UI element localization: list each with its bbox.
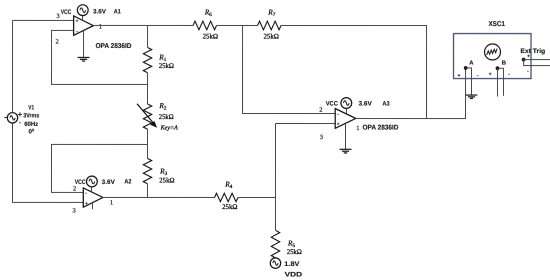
svg-text:OPA 2836ID: OPA 2836ID — [363, 125, 399, 132]
svg-text:3: 3 — [56, 13, 59, 20]
svg-text:3.6V: 3.6V — [93, 8, 107, 15]
op-amp A3 — [335, 109, 356, 129]
svg-text:25kΩ: 25kΩ — [287, 248, 302, 256]
svg-text:B: B — [502, 60, 507, 67]
terminal A — [457, 59, 478, 79]
wire terminal A minus to ground — [466, 68, 472, 95]
A2 V- stub — [91, 203, 93, 209]
VCC symbol A3 — [326, 98, 390, 114]
svg-text:+: + — [76, 20, 79, 25]
resistor R4 — [214, 179, 275, 211]
wire A3 output to scope A — [356, 70, 466, 119]
wire R7 to A3 output (feedback drop) — [281, 26, 427, 119]
wire A2 feedback loop — [51, 144, 147, 192]
ground scope — [466, 95, 478, 98]
svg-text:VDD: VDD — [285, 272, 303, 279]
svg-text:25kΩ: 25kΩ — [159, 113, 174, 121]
VCC symbol A2 — [75, 176, 132, 193]
op-amp A2 — [83, 188, 103, 207]
svg-text:-: - — [477, 73, 479, 79]
resistor R2 (rheostat) — [137, 84, 178, 144]
terminal Ext Trig — [520, 48, 545, 75]
svg-text:VCC: VCC — [75, 179, 86, 186]
svg-text:3.6V: 3.6V — [359, 101, 373, 108]
op-amp A1 — [74, 16, 94, 35]
svg-text:3.6V: 3.6V — [102, 179, 116, 186]
svg-text:Ext Trig: Ext Trig — [520, 48, 545, 55]
svg-text:A2: A2 — [124, 179, 131, 186]
svg-text:VCC: VCC — [61, 9, 72, 16]
resistor R7 — [258, 8, 282, 41]
svg-text:25kΩ: 25kΩ — [222, 203, 237, 211]
svg-text:Key=A: Key=A — [160, 124, 178, 131]
ground A1 — [78, 57, 90, 61]
svg-text:VCC: VCC — [326, 101, 339, 108]
svg-text:OPA 2836ID: OPA 2836ID — [96, 43, 132, 50]
source VDD 1.8V — [270, 258, 302, 279]
source V1 — [4, 112, 22, 123]
svg-text:A: A — [469, 59, 474, 66]
svg-text:+: + — [457, 73, 460, 79]
wire A1 V- to ground — [83, 31, 85, 58]
svg-text:2: 2 — [319, 107, 322, 114]
VCC symbol A1 — [61, 5, 121, 21]
svg-text:XSC1: XSC1 — [489, 19, 505, 28]
svg-text:+: + — [489, 72, 492, 78]
resistor R3 — [143, 144, 174, 197]
svg-text:+: + — [337, 123, 340, 128]
svg-text:A1: A1 — [114, 8, 122, 15]
svg-text:-: - — [508, 72, 510, 78]
wire A2 output rail — [103, 196, 215, 198]
svg-text:3Vrms: 3Vrms — [23, 113, 39, 120]
wire node R6-R7 down to A3 pin2 — [243, 25, 336, 113]
wire R6 to R7 — [217, 24, 258, 26]
oscilloscope XSC1 — [454, 19, 532, 79]
wire Ext Trig stubs — [524, 60, 550, 66]
wire A3 V- to ground — [344, 123, 346, 149]
ground A3 — [339, 149, 351, 153]
resistor R1 — [143, 25, 174, 84]
svg-text:3: 3 — [72, 207, 75, 214]
wire mid vertical node to A3 pin3 and R5 — [275, 124, 335, 231]
svg-text:25kΩ: 25kΩ — [159, 176, 174, 184]
svg-text:+: + — [527, 53, 530, 59]
svg-text:1: 1 — [110, 200, 113, 207]
wire terminal B stubs — [498, 68, 504, 96]
terminal B — [489, 60, 511, 78]
svg-text:25kΩ: 25kΩ — [264, 33, 279, 41]
svg-text:1: 1 — [356, 125, 359, 132]
resistor R6 — [193, 8, 218, 41]
svg-text:V1: V1 — [28, 104, 34, 111]
svg-text:1.8V: 1.8V — [284, 261, 300, 268]
label V1 — [23, 104, 39, 135]
svg-text:25kΩ: 25kΩ — [203, 33, 218, 41]
svg-text:2: 2 — [56, 39, 59, 46]
wire A1 output rail — [93, 24, 193, 26]
svg-text:A3: A3 — [382, 101, 390, 108]
svg-text:3: 3 — [320, 134, 323, 141]
svg-text:-: - — [527, 68, 529, 74]
svg-text:2: 2 — [73, 186, 76, 193]
svg-text:1: 1 — [99, 23, 102, 30]
wire A1 pin2 feedback loop — [52, 30, 148, 84]
resistor R5 — [271, 230, 302, 258]
svg-text:25kΩ: 25kΩ — [159, 62, 174, 70]
wire V1 rail: top to A1 pin3, left vertical, bottom to A2 pin3 — [12, 20, 83, 202]
svg-text:+: + — [85, 202, 88, 207]
